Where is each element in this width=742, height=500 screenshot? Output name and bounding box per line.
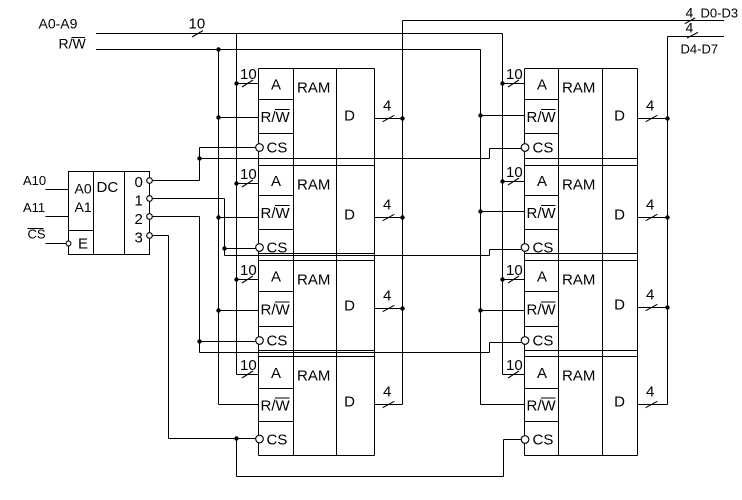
svg-text:D: D xyxy=(344,207,355,224)
junction U2 A bus tap xyxy=(234,81,238,85)
svg-text:D: D xyxy=(344,298,355,315)
bus width slash 10 on U6 A input xyxy=(508,80,519,87)
wire U5 D output stub xyxy=(375,404,403,406)
wire R/W bus horizontal xyxy=(96,49,481,51)
RAM chip U8 top border xyxy=(525,260,638,262)
wire left R/W bus vertical xyxy=(218,50,220,405)
wire out0 to U6 CS xyxy=(490,148,522,150)
RAM chip U5 cell divider A/RW xyxy=(259,388,294,390)
RAM chip U7 cell divider A/RW xyxy=(525,195,559,197)
RAM chip U9 pin label R/W xyxy=(527,398,557,415)
svg-text:A: A xyxy=(537,173,547,190)
svg-text:A11: A11 xyxy=(23,200,45,215)
svg-text:10: 10 xyxy=(506,164,523,181)
junction U2 D bus tap xyxy=(400,116,404,120)
svg-text:RAM: RAM xyxy=(297,80,330,97)
junction U4 D bus tap xyxy=(400,306,404,310)
RAM chip U8 CS pin circle xyxy=(521,337,529,345)
wire A0-A9 bus right vertical xyxy=(502,34,504,375)
svg-text:4: 4 xyxy=(646,98,654,115)
RAM chip U2 top border xyxy=(259,68,375,70)
svg-text:10: 10 xyxy=(240,166,257,183)
bus width slash 10 on U5 A input xyxy=(242,371,253,378)
RAM chip U6 bottom border xyxy=(525,158,638,160)
svg-text:A: A xyxy=(537,365,547,382)
junction U8 A bus tap xyxy=(500,277,504,281)
junction R/W line tap left xyxy=(216,47,220,51)
svg-text:A10: A10 xyxy=(23,173,46,188)
RAM chip U4 bottom border xyxy=(259,350,375,352)
svg-text:A1: A1 xyxy=(75,199,92,215)
RAM chip U3 CS pin circle xyxy=(256,244,264,252)
bus width slash 4 on U6 D output xyxy=(646,115,658,121)
svg-text:CS: CS xyxy=(533,333,554,350)
wire decoder out1 horizontal xyxy=(153,198,225,200)
svg-text:D: D xyxy=(614,297,625,314)
bus width slash 10 on U8 A input xyxy=(508,276,519,283)
svg-text:RAM: RAM xyxy=(297,272,330,289)
RAM chip U7 CS pin circle xyxy=(521,244,529,252)
wire out1 to U3 CS xyxy=(225,248,256,250)
RAM chip U7 cell divider RW/CS xyxy=(525,229,559,231)
wire decoder out1 vertical down xyxy=(224,199,226,256)
bus width slash 10 on U4 A input xyxy=(242,276,253,283)
left RAM column divider 1 vertical xyxy=(293,69,295,456)
decoder U1 pin E circle xyxy=(66,241,71,246)
svg-text:D: D xyxy=(614,394,625,411)
bus width slash 10 on U2 A input xyxy=(242,80,253,87)
svg-text:RAM: RAM xyxy=(297,368,330,385)
right RAM column divider 1 vertical xyxy=(558,69,560,456)
wire U2 R/W input stub xyxy=(219,117,259,119)
svg-text:D: D xyxy=(614,108,625,125)
svg-text:10: 10 xyxy=(189,16,206,33)
wire out2 step up xyxy=(489,343,491,353)
svg-text:DC: DC xyxy=(97,179,119,196)
RAM chip U2 cell divider A/RW xyxy=(259,99,294,101)
wire U3 R/W input stub xyxy=(219,217,259,219)
svg-text:CS: CS xyxy=(267,140,288,157)
svg-text:1: 1 xyxy=(135,193,143,210)
wire out1 cross to right column xyxy=(225,255,490,257)
wire U8 A input stub xyxy=(503,279,525,281)
svg-text:10: 10 xyxy=(240,66,257,83)
svg-text:D: D xyxy=(344,394,355,411)
bus width slash 4 on U2 D output xyxy=(383,115,395,121)
wire left A bus vertical xyxy=(236,34,238,375)
junction U3 D bus tap xyxy=(400,215,404,219)
wire D4-D7 bus vertical xyxy=(667,37,669,405)
decoder U1 right divider xyxy=(124,172,126,255)
svg-text:4: 4 xyxy=(686,5,694,21)
RAM chip U3 top border xyxy=(259,165,375,167)
wire U9 R/W input stub xyxy=(481,404,525,406)
wire R/W bus right vertical xyxy=(480,50,482,405)
svg-text:CS: CS xyxy=(533,240,554,257)
svg-text:R/W: R/W xyxy=(527,205,557,222)
RAM chip U4 cell divider RW/CS xyxy=(259,326,294,328)
svg-text:A: A xyxy=(271,365,281,382)
junction U7 R/W bus tap xyxy=(478,209,482,213)
wire out3 bottom cross to right column xyxy=(237,476,504,478)
svg-text:RAM: RAM xyxy=(297,177,330,194)
RAM chip U7 pin label R/W xyxy=(527,205,557,222)
svg-text:10: 10 xyxy=(240,262,257,279)
svg-text:3: 3 xyxy=(135,230,143,247)
wire U6 A input stub xyxy=(503,83,525,85)
decoder U1 pin 1 circle xyxy=(147,196,153,202)
wire out0 to U2 CS xyxy=(200,147,256,149)
net R/W label xyxy=(59,36,87,52)
wire U4 A input stub xyxy=(237,279,259,281)
wire decoder out3 horizontal xyxy=(153,235,169,237)
RAM chip U2 CS pin circle xyxy=(256,144,264,152)
bus width slash 10 on U3 A input xyxy=(242,180,253,187)
svg-text:CS: CS xyxy=(267,333,288,350)
decoder U1 pin 2 circle xyxy=(147,214,153,220)
wire U8 D output stub xyxy=(638,307,668,309)
svg-text:CS: CS xyxy=(533,140,554,157)
wire out1 step up xyxy=(489,250,491,256)
svg-text:10: 10 xyxy=(506,262,523,279)
RAM chip U7 top border xyxy=(525,165,638,167)
RAM chip U6 top border xyxy=(525,68,638,70)
svg-text:A: A xyxy=(537,269,547,286)
RAM chip U5 cell divider RW/CS xyxy=(259,421,294,423)
RAM chip U6 cell divider A/RW xyxy=(525,99,559,101)
svg-text:10: 10 xyxy=(240,357,257,374)
left RAM column outer right edge xyxy=(374,69,376,456)
net CS label with overline xyxy=(28,227,46,242)
wire out3 horizontal to branch xyxy=(169,438,237,440)
bus width slash 4 on U4 D output xyxy=(383,305,395,311)
svg-text:A: A xyxy=(271,77,281,94)
svg-text:R/W: R/W xyxy=(261,302,291,319)
svg-text:A: A xyxy=(271,269,281,286)
RAM chip U2 pin label R/W xyxy=(261,109,291,126)
bus width slash 4 on U3 D output xyxy=(383,214,395,220)
svg-text:D4-D7: D4-D7 xyxy=(681,42,719,57)
RAM chip U2 bottom border xyxy=(259,158,375,160)
svg-text:R/W: R/W xyxy=(527,109,557,126)
svg-text:RAM: RAM xyxy=(562,177,595,194)
wire U6 R/W input stub xyxy=(481,115,525,117)
bus width slash 4 on D4-D7 xyxy=(687,32,698,38)
junction out2 branch xyxy=(197,339,201,343)
bus width slash 10 on A0-A9 xyxy=(192,31,203,37)
wire CS input to E xyxy=(46,243,67,245)
wire out3 to U9 CS xyxy=(504,439,522,441)
svg-text:D: D xyxy=(614,207,625,224)
wire D0-D3 bus horizontal top xyxy=(403,20,725,22)
junction U3 R/W bus tap xyxy=(216,215,220,219)
decoder U1 pin 3 circle xyxy=(147,233,153,239)
bus width slash 10 on U9 A input xyxy=(508,371,519,378)
decoder U1 E cell divider xyxy=(69,230,94,232)
bus width slash 10 on U7 A input xyxy=(508,178,519,185)
svg-text:4: 4 xyxy=(383,384,391,401)
RAM chip U8 pin label R/W xyxy=(527,302,557,319)
bus width slash 4 on U9 D output xyxy=(646,401,658,407)
wire U4 D output stub xyxy=(375,308,403,310)
right RAM column outer right edge xyxy=(637,69,639,456)
wire out2 to U4 CS xyxy=(200,341,256,343)
decoder U1 box xyxy=(69,172,150,255)
wire U3 D output stub xyxy=(375,217,403,219)
RAM chip U9 top border xyxy=(525,356,638,358)
wire D0-D3 bus vertical xyxy=(402,21,404,405)
bus width slash 4 on U7 D output xyxy=(646,214,658,220)
svg-text:RAM: RAM xyxy=(562,272,595,289)
wire out3 branch vertical down xyxy=(236,439,238,477)
svg-text:A0: A0 xyxy=(75,181,92,197)
RAM chip U3 cell divider RW/CS xyxy=(259,229,294,231)
RAM chip U5 CS pin circle xyxy=(256,435,264,443)
RAM chip U9 CS pin circle xyxy=(521,436,529,444)
RAM chip U3 bottom border xyxy=(259,253,375,255)
svg-text:R/W: R/W xyxy=(261,398,291,415)
svg-text:R/W: R/W xyxy=(527,302,557,319)
wire U8 R/W input stub xyxy=(481,310,525,312)
svg-text:A: A xyxy=(537,77,547,94)
wire U9 D output stub xyxy=(638,404,668,406)
junction U4 R/W bus tap xyxy=(216,308,220,312)
svg-text:D: D xyxy=(344,108,355,125)
junction U6 A bus tap xyxy=(500,81,504,85)
RAM chip U9 bottom border xyxy=(525,455,638,457)
svg-text:10: 10 xyxy=(506,357,523,374)
RAM chip U9 cell divider A/RW xyxy=(525,388,559,390)
junction U8 D bus tap xyxy=(665,305,669,309)
wire U5 A input stub xyxy=(237,374,259,376)
wire A11 input xyxy=(46,216,69,218)
svg-text:10: 10 xyxy=(506,66,523,83)
svg-text:0: 0 xyxy=(135,174,143,191)
right RAM column outer left edge xyxy=(524,69,526,456)
junction U4 A bus tap xyxy=(234,277,238,281)
svg-text:R/W: R/W xyxy=(527,398,557,415)
wire out0 branch cross to right column xyxy=(200,158,490,160)
RAM chip U7 bottom border xyxy=(525,253,638,255)
svg-text:2: 2 xyxy=(135,211,143,228)
wire U7 A input stub xyxy=(503,181,525,183)
RAM chip U6 cell divider RW/CS xyxy=(525,133,559,135)
junction U7 A bus tap xyxy=(500,179,504,183)
wire U6 D output stub xyxy=(638,118,668,120)
RAM chip U6 CS pin circle xyxy=(521,144,529,152)
wire decoder out0 vertical up xyxy=(199,148,201,181)
svg-text:RAM: RAM xyxy=(562,80,595,97)
RAM chip U3 pin label R/W xyxy=(261,205,291,222)
RAM chip U4 cell divider A/RW xyxy=(259,291,294,293)
junction out3 branch xyxy=(234,436,238,440)
RAM chip U2 cell divider RW/CS xyxy=(259,133,294,135)
wire A0-A9 bus horizontal xyxy=(96,33,503,35)
left RAM column divider 2 vertical xyxy=(336,69,338,456)
svg-text:4: 4 xyxy=(646,197,654,214)
svg-text:4: 4 xyxy=(686,19,694,35)
svg-text:4: 4 xyxy=(646,287,654,304)
wire U7 R/W input stub xyxy=(481,211,525,213)
bus width slash 4 on U8 D output xyxy=(646,304,658,310)
wire U9 A input stub xyxy=(503,374,525,376)
RAM chip U5 bottom border xyxy=(259,455,375,457)
junction out0 branch xyxy=(197,156,201,160)
svg-text:CS: CS xyxy=(267,432,288,449)
wire U2 A input stub xyxy=(237,83,259,85)
junction out1 branch xyxy=(222,246,226,250)
svg-text:R/W: R/W xyxy=(261,205,291,222)
bus width slash 4 on D0-D3 xyxy=(685,18,695,24)
junction U3 A bus tap xyxy=(234,181,238,185)
RAM chip U5 pin label R/W xyxy=(261,398,291,415)
svg-text:CS: CS xyxy=(533,432,554,449)
svg-text:R/W: R/W xyxy=(261,109,291,126)
wire A10 input xyxy=(46,189,69,191)
right RAM column divider 2 vertical xyxy=(602,69,604,456)
RAM chip U4 top border xyxy=(259,260,375,262)
wire out1 to U7 CS xyxy=(490,249,522,251)
wire U5 R/W input stub xyxy=(219,404,259,406)
wire decoder out2 vertical down xyxy=(199,217,201,353)
junction U8 R/W bus tap xyxy=(478,308,482,312)
junction U6 R/W bus tap xyxy=(478,113,482,117)
svg-text:4: 4 xyxy=(383,288,391,305)
RAM chip U8 cell divider A/RW xyxy=(525,291,559,293)
wire out3 step up right xyxy=(503,440,505,477)
svg-text:CS: CS xyxy=(267,240,288,257)
svg-text:A0-A9: A0-A9 xyxy=(39,16,78,32)
svg-text:E: E xyxy=(78,236,88,253)
decoder U1 left divider xyxy=(93,172,95,255)
wire out2 cross to right column xyxy=(200,352,490,354)
junction U6 D bus tap xyxy=(665,116,669,120)
RAM chip U5 top border xyxy=(259,356,375,358)
left RAM column outer left edge xyxy=(258,69,260,456)
svg-text:4: 4 xyxy=(383,98,391,115)
RAM chip U3 cell divider A/RW xyxy=(259,195,294,197)
svg-text:D0-D3: D0-D3 xyxy=(701,6,739,21)
wire out3 to U5 CS xyxy=(237,438,256,440)
wire out0 branch step up xyxy=(489,149,491,159)
wire U4 R/W input stub xyxy=(219,310,259,312)
RAM chip U8 cell divider RW/CS xyxy=(525,326,559,328)
RAM chip U8 bottom border xyxy=(525,350,638,352)
wire U7 D output stub xyxy=(638,217,668,219)
wire decoder out2 horizontal xyxy=(153,216,200,218)
RAM chip U4 CS pin circle xyxy=(256,337,264,345)
RAM chip U4 pin label R/W xyxy=(261,302,291,319)
RAM chip U6 pin label R/W xyxy=(527,109,557,126)
junction U2 R/W bus tap xyxy=(216,115,220,119)
svg-text:4: 4 xyxy=(646,384,654,401)
wire U3 A input stub xyxy=(237,183,259,185)
svg-text:RAM: RAM xyxy=(562,368,595,385)
bus width slash 4 on U5 D output xyxy=(383,401,395,407)
wire out2 to U8 CS xyxy=(490,342,522,344)
junction U7 D bus tap xyxy=(665,215,669,219)
wire decoder out0 horizontal xyxy=(153,180,200,182)
wire D4-D7 bus horizontal top xyxy=(668,36,725,38)
svg-text:A: A xyxy=(271,173,281,190)
RAM chip U9 cell divider RW/CS xyxy=(525,421,559,423)
wire U2 D output stub xyxy=(375,118,403,120)
svg-text:4: 4 xyxy=(383,197,391,214)
wire decoder out3 vertical down xyxy=(168,236,170,439)
decoder U1 pin 0 circle xyxy=(147,178,153,184)
